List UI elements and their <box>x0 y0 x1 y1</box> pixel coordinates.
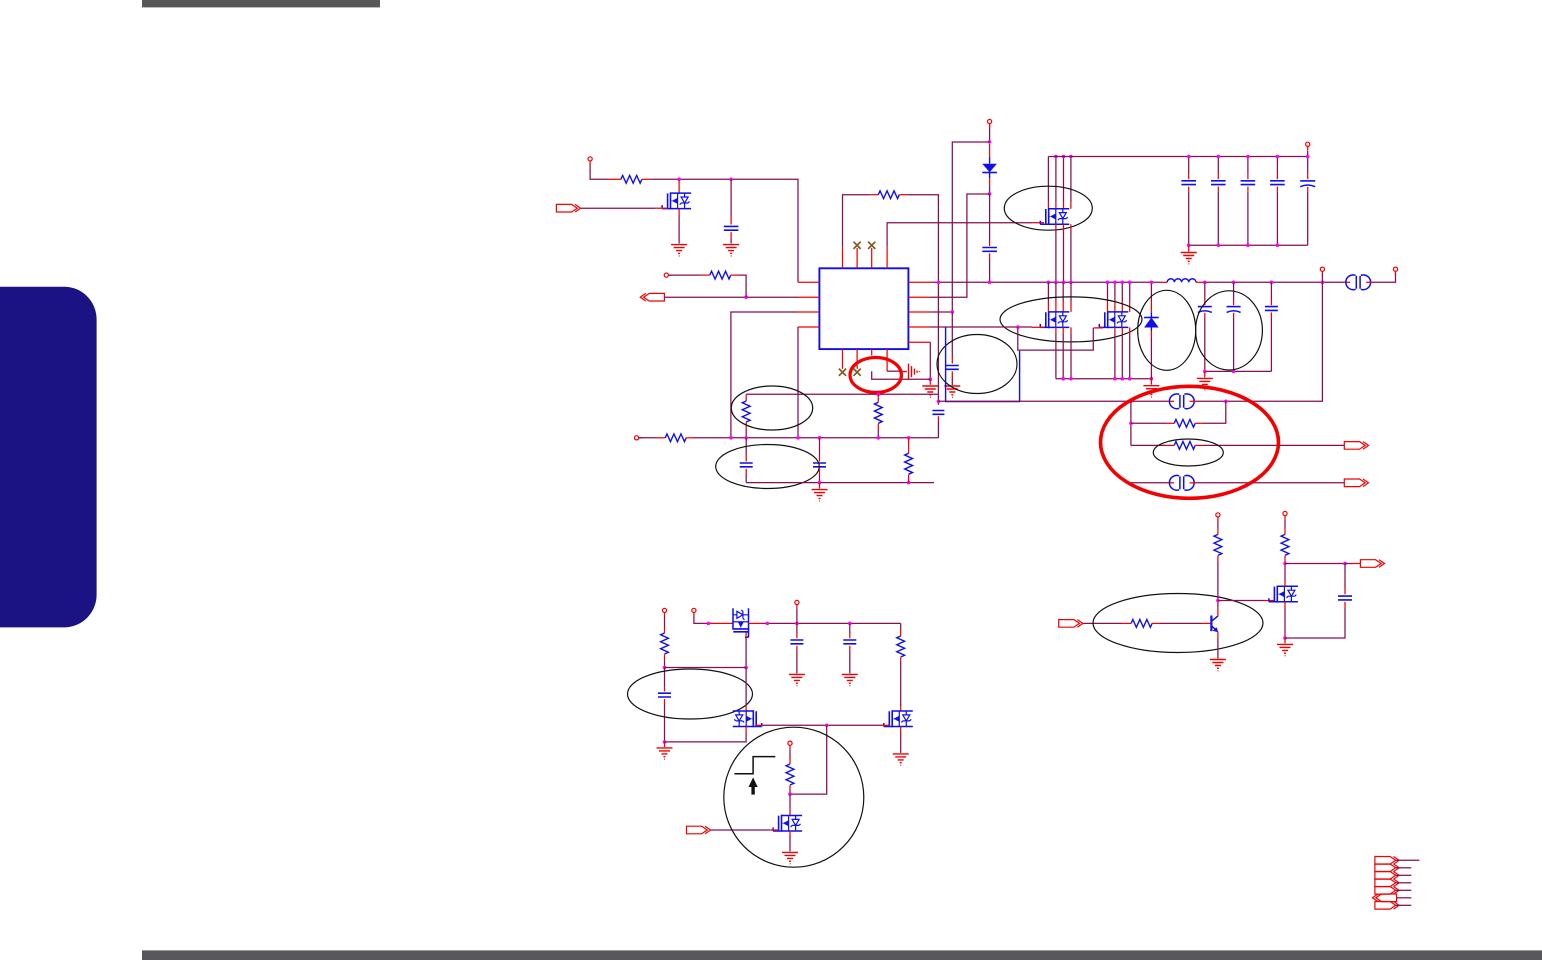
ellipse highlight around C_E C_F <box>716 445 820 489</box>
ground below cap bank <box>1181 253 1197 264</box>
wire from VT0 to resistor R_A row <box>590 165 608 180</box>
U1 left pin 2 <box>798 296 819 298</box>
no-connect X on U1 bottom pin 1 <box>839 369 846 376</box>
junction at Q_A drain <box>677 178 681 182</box>
low rail y482 <box>746 482 934 484</box>
ground below Q_E <box>782 852 798 863</box>
wire R_L to node <box>789 785 791 790</box>
ground below C_I <box>842 674 858 685</box>
wire node right to output connector PG_OUT <box>1345 563 1352 565</box>
wire Q_G drain from node <box>1284 581 1286 587</box>
capacitor C_C <box>946 366 959 370</box>
capacitor C8 column <box>1270 282 1272 299</box>
junction at C_A column <box>729 178 733 182</box>
resistor R_I row to connector <box>1131 444 1166 446</box>
ellipse highlight tall right (C6 C7) <box>1196 291 1263 370</box>
transistor Q_C <box>733 710 762 727</box>
wire U1 right pin2 loop up to D_A node <box>930 194 990 297</box>
transistor Q_G <box>1269 586 1298 603</box>
wire Q_C source to gnd row <box>745 727 747 734</box>
terminal VT8 <box>692 608 696 616</box>
wire gate column down to transistor Q_C <box>745 668 747 706</box>
fuse F1 on rail <box>1345 281 1350 283</box>
cap bank column 3 wire <box>1247 157 1249 174</box>
U1 left pin 4 <box>798 326 819 328</box>
wire F1 to terminal VT4 <box>1372 274 1396 283</box>
wire connector to Q_A gate <box>581 207 655 209</box>
connector stack CN1 pin2 <box>1375 864 1399 872</box>
ground stub below C_F <box>819 483 821 489</box>
wire U1 bottom pin3 net to ground node <box>872 371 931 379</box>
wire Q_T source columns down to rail <box>1056 224 1071 229</box>
cap bank ground stub <box>1188 245 1190 251</box>
resistor R_M <box>1131 620 1152 628</box>
red ellipse highlight on U1 bottom pins <box>850 358 901 393</box>
wire Q_B gate down to node row2 <box>745 633 747 639</box>
polarized cap C6 column <box>1204 282 1206 299</box>
fuse F2 <box>1168 400 1174 402</box>
connector stack CN1 pin1 <box>1375 857 1399 865</box>
wire U1 right pin4 to Q_P1 gate <box>930 326 1032 328</box>
wire top rail to Q_T drain columns <box>1048 157 1071 203</box>
page header bar <box>142 0 380 7</box>
resistor R_E column <box>877 394 879 402</box>
terminal VT5 top right <box>1306 142 1310 150</box>
capacitor C2 of bank <box>1211 181 1226 185</box>
terminal VT11 <box>1216 513 1220 521</box>
ground below C_C <box>944 386 960 397</box>
wires Q_P1 source down to low rail <box>1056 327 1071 333</box>
wires Q_P2 source down to low rail <box>1115 327 1130 333</box>
ground below cap group <box>1197 378 1213 389</box>
junction start of fuse row <box>937 400 941 404</box>
capacitor C4 of bank <box>1270 181 1285 185</box>
main output rail wire <box>930 281 1160 283</box>
circle highlight bottom block <box>724 727 864 867</box>
connector stack CN1 pin4 <box>1375 879 1399 887</box>
transistor Q_P1 <box>1040 311 1069 328</box>
wire U1 top pin4 up to gate rail of Q_T <box>887 223 1032 247</box>
low rail under mosfet pair <box>1056 378 1152 380</box>
wire D_A node down to capacitor C_B <box>989 194 991 240</box>
ellipse highlight around Q_F <box>1093 594 1263 653</box>
transistor Q_A <box>662 192 691 209</box>
transistor Q_E <box>773 815 802 832</box>
capacitor C_E column <box>745 438 747 456</box>
wire VT9 stub <box>796 609 798 624</box>
wire R_M to Q_F base <box>1152 622 1160 624</box>
blue net wire crossing <box>946 327 1020 401</box>
cap group bottom wire <box>1205 370 1272 372</box>
ground below Q_F <box>1210 660 1226 671</box>
ground below C_F <box>812 490 828 501</box>
wire R_C right to long column <box>899 194 907 196</box>
transistor Q_F npn <box>1211 616 1218 633</box>
wire R_N to collector node <box>1217 556 1219 562</box>
resistor R_L <box>786 764 794 785</box>
rotated ground at U1 bottom-right <box>909 364 920 380</box>
U1 right pin 4 <box>908 326 930 328</box>
step waveform annotation <box>734 757 775 774</box>
wire VT1 to resistor R_B <box>668 274 701 276</box>
input connector PWR_ON <box>556 204 580 212</box>
gate row wire Q_C to Q_D <box>756 724 762 726</box>
wire C_C to ground <box>951 371 953 377</box>
ellipse highlight around Q_P1 Q_P2 <box>1000 297 1142 342</box>
big red ellipse highlight <box>1101 386 1279 498</box>
wire EN connector to U1 left pin 2 <box>664 296 798 298</box>
resistor R_C <box>878 191 899 199</box>
fuse row wire <box>938 400 1168 402</box>
junction column x952 with U1 right pin3 <box>930 311 952 313</box>
no-connect X on U1 top pin 2 <box>854 242 861 249</box>
rail junction at diode column <box>988 281 992 285</box>
ground below C_G node <box>664 742 666 747</box>
resistor R_D column <box>745 394 747 401</box>
junction gate net at x1017 <box>1016 325 1020 329</box>
cap bank column 2 wire <box>1217 157 1219 174</box>
resistor R_N <box>1214 534 1222 555</box>
inductor L1 on rail <box>1160 281 1167 283</box>
wire VT8 to transistor Q_B <box>694 617 708 624</box>
diode D_B anode-up <box>1144 317 1159 319</box>
ground below C_A <box>723 245 739 256</box>
ground stub cap group <box>1204 371 1206 377</box>
ground below Q_G <box>1284 638 1286 643</box>
input connector GATE_IN <box>687 826 711 834</box>
wire Q_B source to node row <box>749 622 763 624</box>
junctions Q_T columns on rails <box>1054 155 1058 159</box>
diode D_B column from rail <box>1150 282 1152 301</box>
U1 bottom pin 1 <box>842 349 844 369</box>
ground below node x930 <box>922 386 938 397</box>
wire U1 left pin3 down-left column <box>731 312 798 438</box>
wire node row between columns <box>665 667 747 669</box>
connector stack CN1 pin5 <box>1375 887 1399 895</box>
ellipse highlight around Q_T <box>1004 186 1092 230</box>
wire collector node to Q_G gate <box>1218 600 1264 602</box>
wire R_J to node <box>664 654 666 660</box>
resistor R_O <box>1281 534 1289 555</box>
capacitor C_D column right <box>937 401 939 405</box>
transistor Q_D <box>884 710 913 727</box>
wire U1 right pin5 L-down to ground node <box>929 342 931 379</box>
ground below C_H <box>789 674 805 685</box>
junction at ground node x930 <box>929 378 933 382</box>
transistor Q_P2 <box>1099 311 1128 328</box>
terminal VT3 on rail <box>1320 267 1324 275</box>
wire after L1 <box>1196 281 1203 283</box>
capacitor C3 of bank <box>1241 181 1256 185</box>
junctions on cap bank rails <box>1187 155 1191 159</box>
U1 right pin 5 <box>908 341 930 343</box>
ellipse highlight around R_I <box>1153 439 1223 466</box>
wire C_G down to gnd node <box>664 699 666 704</box>
resistor R_K column <box>900 623 902 630</box>
no-connect X on U1 bottom pin 2 <box>854 369 861 376</box>
wire emitter to ground <box>1217 632 1219 639</box>
input connector EN to U1 pin2 <box>640 293 664 301</box>
wire VT3 stub to rail <box>1321 274 1323 283</box>
output connector VOUT_B <box>1344 479 1368 487</box>
pin stub Q_A drain <box>678 180 680 193</box>
mid rail y438 <box>686 437 694 439</box>
U1 left pin 3 <box>798 311 819 313</box>
wire step rail394 corner down to fuse-row node <box>937 394 939 401</box>
capacitor C_F column <box>819 438 821 456</box>
upper rail of RC network <box>746 393 938 395</box>
wire VT6 to resistor R_F <box>639 437 657 439</box>
IC U1 body <box>819 268 908 349</box>
wire Q_A source to ground <box>678 209 680 215</box>
polarized cap C7 column <box>1233 282 1235 299</box>
resistor R_H row <box>1131 422 1166 424</box>
wire node down to transistor Q_E <box>789 794 791 808</box>
wire C_A to ground <box>730 232 732 238</box>
cap bank column 5 wire (polarized) <box>1307 151 1309 174</box>
U1 bottom pin 4 <box>886 349 888 371</box>
wire output node to connector <box>1285 563 1345 565</box>
capacitor C_B <box>982 248 997 252</box>
wires rail down to Q_P2 drain <box>1108 282 1130 301</box>
wire connector to Q_E gate <box>711 829 770 831</box>
wire node to capacitor C_A <box>730 179 732 217</box>
ground below Q_A <box>671 245 687 256</box>
U1 bottom pin 2 <box>856 349 858 369</box>
wire VT12 to resistor R_O <box>1284 520 1286 529</box>
wire column x952 down to capacitor C_C <box>951 312 953 357</box>
wire VT7 to resistor R_J <box>664 617 666 628</box>
wire node down to capacitor C_G <box>664 668 666 688</box>
fuse F3 row to connector <box>1131 482 1169 484</box>
junction top of diode column <box>988 140 992 144</box>
connector stack CN1 pin7 <box>1375 902 1399 910</box>
wire U1 left pin4 column down <box>797 327 799 438</box>
rail junctions at cap columns <box>1203 281 1207 285</box>
resistor R_B <box>710 271 731 279</box>
U1 right pin 2 <box>908 296 930 298</box>
U1 top pin 2 <box>856 248 858 268</box>
capacitor C_G <box>658 693 671 697</box>
wires rail down to Q_P1 drain <box>1048 282 1071 301</box>
U1 left pin 1 <box>798 281 819 283</box>
wire F2 to right column <box>1196 282 1323 401</box>
U1 right pin 3 <box>908 311 930 313</box>
page footer bar <box>142 950 1542 960</box>
cap bank bottom return wire <box>1189 244 1308 246</box>
wire Q_E source to ground <box>789 831 791 837</box>
wire R_A to node and to IC pin column <box>642 178 650 180</box>
transistor Q_T <box>1040 208 1069 225</box>
connector stack CN1 pin3 <box>1375 872 1399 880</box>
ground below Q_D <box>893 754 909 765</box>
capacitor C_I column <box>849 623 851 633</box>
resistor R_J <box>661 633 669 654</box>
terminal VT10 <box>788 741 792 749</box>
ellipse highlight around C_G <box>628 669 753 719</box>
terminal VT7 <box>662 608 666 616</box>
left side navy tab <box>0 287 97 628</box>
resistor R_A <box>621 175 642 183</box>
resistor R_G column <box>908 438 910 454</box>
wire ground node stub down <box>929 379 931 385</box>
resistor R_F <box>665 434 686 442</box>
wire R_O to output node <box>1284 556 1286 564</box>
capacitor C_J column <box>1344 564 1346 589</box>
wire R_B to EN node <box>731 274 739 276</box>
wire node west then down long column x952 <box>952 142 989 312</box>
wire VT10 to resistor R_L <box>789 749 791 758</box>
ellipse highlight around C_C <box>937 335 1017 394</box>
top rail wire <box>1048 156 1307 158</box>
wire CTL_IN to resistor R_M <box>1083 622 1121 624</box>
wire C_B to rail <box>989 253 991 258</box>
cap bank column 4 wire <box>1276 157 1278 174</box>
terminal VT2 top <box>988 119 992 127</box>
capacitor C_A <box>724 226 739 230</box>
polarized capacitor C5 of bank <box>1300 181 1315 187</box>
transistor Q_B (pass pmos) <box>732 608 749 637</box>
U1 bottom pin 3 <box>871 349 873 355</box>
terminal VT9 <box>795 600 799 608</box>
diode D_A cathode-down <box>989 144 991 158</box>
terminal VT4 <box>1393 267 1397 275</box>
ellipse highlight tall left (D_B) <box>1138 290 1196 370</box>
branch column to resistor R_H row <box>1130 401 1132 445</box>
wire VT2 down to node <box>989 124 991 128</box>
input connector CTL_IN <box>1059 620 1083 628</box>
gate branch down-right to Q_P2 gate <box>1018 327 1094 350</box>
wire U1 top pin1 to resistor R_C loop <box>843 195 871 247</box>
U1 top pin 4 <box>886 246 888 268</box>
cap bank column 1 wire <box>1188 157 1190 174</box>
wire U1 bottom pin4 to rotated ground <box>887 370 903 372</box>
wire VT11 to resistor R_N <box>1217 521 1219 529</box>
junction on EN wire <box>744 295 748 299</box>
no-connect X on U1 top pin 3 <box>868 242 875 249</box>
U1 top pin 1 <box>842 246 844 268</box>
power terminal VT0 <box>588 157 592 165</box>
connector stack CN1 pin6 (input) <box>1372 894 1396 902</box>
output connector VOUT_A <box>1344 442 1368 450</box>
terminal VT6 left <box>635 436 643 440</box>
branch down from gate row <box>790 725 827 794</box>
ground below low rail <box>1143 386 1159 397</box>
junction below D_A <box>988 192 992 196</box>
ellipse highlight around R_D <box>731 386 812 430</box>
capacitor C_H column <box>796 623 798 633</box>
ground stub at low rail <box>1150 379 1152 385</box>
wire Q_D source to ground <box>900 727 902 734</box>
terminal VT1 <box>664 273 672 277</box>
capacitor C1 of bank <box>1181 181 1196 185</box>
terminal VT12 <box>1283 511 1287 519</box>
arrow annotation <box>749 777 758 794</box>
U1 right pin 1 <box>908 281 930 283</box>
wire Q_G source down to ground node <box>1284 602 1286 608</box>
U1 top pin 3 <box>871 248 873 268</box>
